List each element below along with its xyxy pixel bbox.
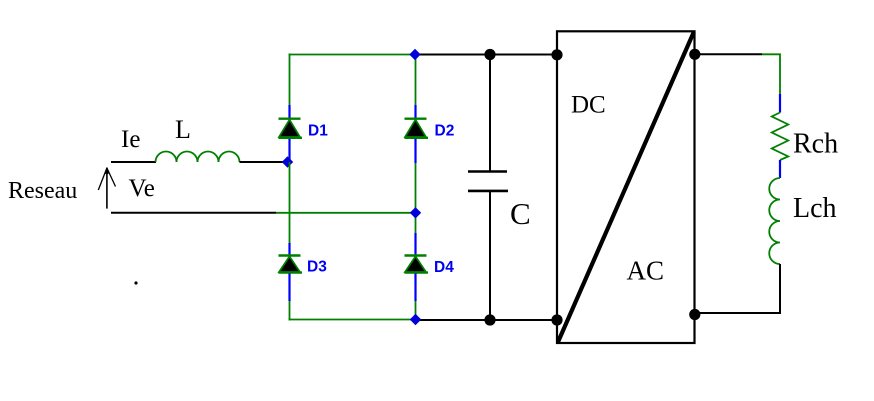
svg-text:Rch: Rch [793,128,838,159]
wire left branch middle (green) [289,162,291,243]
node input top (blue diamond) [282,156,293,167]
node box right top (black dot) [689,49,700,60]
node top rail (blue diamond) [409,49,420,60]
wire Rch top lead (blue) [779,94,781,113]
wire right branch upper (green) [415,54,417,106]
wire capacitor bottom [489,191,491,320]
diode D2 [405,119,429,143]
svg-text:AC: AC [627,256,665,286]
wire bottom rail (green) [289,319,416,321]
converter diagonal [558,32,694,342]
diode D3 [279,256,303,278]
wire D4 top lead (blue) [414,233,416,256]
wire bottom input (black) [111,212,276,214]
wire bottom input (green) to right branch [276,212,416,214]
wire load top corner (green) [762,54,780,94]
svg-text:L: L [175,115,191,144]
wire capacitor top [489,55,491,172]
svg-text:DC: DC [571,91,606,118]
wire right branch lower (green) [415,301,417,321]
wire top input left segment [111,161,156,163]
svg-text:Ve: Ve [129,175,155,202]
wire left branch lower (green) [289,301,291,321]
svg-text:C: C [510,196,531,231]
wire D4 bottom lead (blue) [414,274,416,302]
wire top rail (black) to box [416,54,558,56]
wire D1 top lead (blue) [288,105,290,119]
wire left branch upper (green) [289,54,291,106]
wire top input right segment [240,161,288,163]
arrow Ve (source arrow) [98,168,115,209]
inductor L [156,152,240,163]
converter box U1 [557,31,695,343]
svg-text:D1: D1 [308,123,328,140]
wire right branch middle (green) [415,163,417,233]
wire D2 bottom lead (blue) [414,139,416,163]
node cap bottom (black dot) [484,314,495,325]
svg-text:Ie: Ie [121,126,140,153]
node box left top (black dot) [551,49,562,60]
wire top rail (green) [289,54,416,56]
node bottom rail (blue diamond) [410,314,421,325]
wire D3 bottom lead (blue) [288,274,290,302]
node cap top (black dot) [484,49,495,60]
wire D1 bottom lead (blue) [288,139,290,162]
diode D4 [405,256,429,278]
node box right bottom (black dot) [689,309,700,320]
wire load top (black) [695,53,762,55]
resistor Rch [772,113,788,161]
wire load bottom (black) [695,264,780,313]
node box left bottom (black dot) [551,314,562,325]
svg-text:Lch: Lch [793,193,837,224]
diode D1 [279,119,303,143]
wire D2 top lead (blue) [414,105,416,119]
svg-text:Reseau: Reseau [8,178,77,204]
capacitor C [468,172,508,191]
svg-text:D4: D4 [434,259,454,276]
wire Rch-Lch lead (blue) [779,160,781,178]
wire D3 top lead (blue) [288,243,290,256]
wire bottom rail (black) to box [416,319,558,321]
node input bottom (blue diamond) [410,207,421,218]
inductor Lch [769,178,780,264]
svg-text:D2: D2 [435,123,455,140]
stray dot [134,281,137,284]
svg-text:D3: D3 [307,259,327,276]
